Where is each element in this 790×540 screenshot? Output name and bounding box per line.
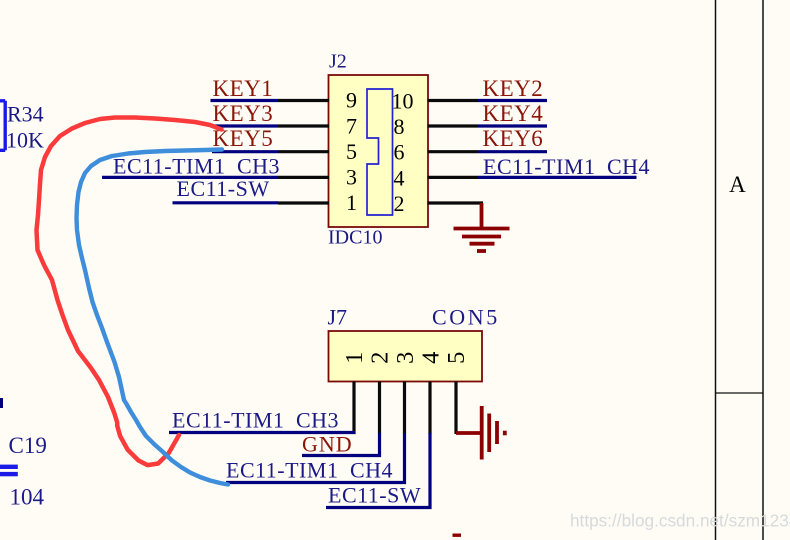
wire EC11-TIM1_CH3 bottom [169,431,356,434]
wire KEY1 [211,99,279,102]
J2 pin 10 lead [428,99,479,102]
svg-text:3: 3 [392,352,419,364]
svg-text:7: 7 [346,113,357,138]
svg-text:8: 8 [394,114,405,139]
svg-text:KEY1: KEY1 [213,76,274,101]
J2 pin 3 lead [278,176,329,179]
wire EC11-TIM1_CH4 bottom [226,433,405,483]
svg-text:3: 3 [346,165,357,190]
capacitor C19 [0,433,47,510]
wire EC11-SW left [173,201,279,204]
J2 pin 8 lead [428,124,479,127]
wire pin2 to ground [480,203,484,228]
svg-text:10K: 10K [6,128,44,153]
resistor R34 [0,101,44,153]
svg-text:2: 2 [367,352,394,364]
wire J7 pin5 to ground [456,431,482,435]
svg-text:KEY3: KEY3 [213,101,274,126]
wire KEY4 [478,124,547,127]
J7 pin 1 lead [352,382,355,435]
svg-text:EC11-SW: EC11-SW [328,483,421,508]
wire KEY2 [478,99,547,102]
connector J7 body [329,331,483,382]
svg-text:EC11-TIM1 CH4: EC11-TIM1 CH4 [226,457,393,482]
svg-text:1: 1 [341,352,368,364]
J7 pin 4 lead [428,382,431,435]
svg-text:5: 5 [346,139,357,164]
wire KEY6 [478,150,547,153]
J2 pin 6 lead [428,150,479,153]
svg-text:1: 1 [346,190,357,215]
svg-text:J2: J2 [329,51,347,73]
svg-text:4: 4 [418,352,445,364]
frame zone divider [716,392,764,394]
svg-text:2: 2 [394,191,405,216]
svg-text:EC11-TIM1 CH3: EC11-TIM1 CH3 [172,408,339,433]
svg-text:KEY2: KEY2 [483,76,544,101]
frame border line outer [762,0,764,540]
svg-text:KEY6: KEY6 [483,126,544,151]
svg-text:10: 10 [392,88,414,113]
svg-text:9: 9 [346,88,357,113]
J2 pin 4 lead [428,176,479,179]
svg-text:CON5: CON5 [432,305,500,330]
wire EC11-SW bottom [326,433,430,508]
svg-text:EC11-SW: EC11-SW [177,176,270,201]
svg-text:https://blog.csdn.net/szm1234: https://blog.csdn.net/szm1234 [570,511,790,531]
J7 pin 3 lead [403,382,406,435]
wire KEY5 [212,150,278,153]
wire stub left edge [0,398,3,408]
wire EC11-TIM1_CH4 right [478,176,637,179]
annotation red curve [37,118,222,466]
power stub bottom [453,534,462,537]
svg-text:A: A [729,172,746,197]
annotation blue curve [77,150,229,485]
svg-text:104: 104 [10,485,45,510]
connector J2 body [329,75,429,227]
J2 pin 7 lead [278,124,329,127]
wire KEY3 [211,124,278,127]
wire EC11-TIM1_CH3 left [102,176,278,179]
J2 key outline [367,89,393,215]
svg-text:EC11-TIM1 CH3: EC11-TIM1 CH3 [113,153,280,178]
J7 pin 5 lead [454,382,457,435]
svg-text:EC11-TIM1 CH4: EC11-TIM1 CH4 [483,154,650,179]
svg-text:KEY4: KEY4 [483,101,544,126]
svg-text:4: 4 [394,165,405,190]
J2 pin 5 lead [278,150,329,153]
wire GND [302,433,380,456]
J2 pin 1 lead [278,201,329,204]
ground at J7 pin 5 (rotated) [482,406,505,460]
svg-text:GND: GND [302,431,353,456]
svg-text:R34: R34 [7,101,44,126]
svg-text:IDC10: IDC10 [328,226,382,248]
frame border line inner [715,0,717,540]
svg-text:6: 6 [394,140,405,165]
J2 pin 9 lead [278,99,329,102]
ground GND at J2 pin 2 [454,229,510,252]
svg-text:J7: J7 [328,304,348,329]
J2 pin 2 lead [428,201,484,204]
svg-text:C19: C19 [9,433,47,458]
J7 pin 2 lead [378,382,381,435]
svg-text:5: 5 [443,352,470,364]
